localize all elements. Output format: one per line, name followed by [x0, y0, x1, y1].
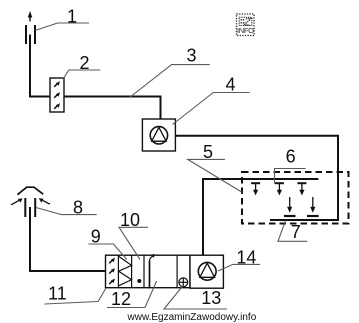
- svg-text:13: 13: [201, 288, 221, 308]
- label 12 leader: [107, 281, 157, 308]
- supply diffusers 6: [251, 183, 306, 195]
- label 11 leader: [45, 288, 107, 304]
- svg-text:1: 1: [67, 6, 77, 26]
- label 2 leader: [64, 70, 101, 79]
- supply duct wire to room and down to AHU fan: [203, 179, 318, 255]
- AHU heater zigzag 9: [119, 256, 132, 286]
- air intake symbol 8: [11, 187, 50, 217]
- label 7 leader: [278, 221, 307, 242]
- label 13 leader: [164, 285, 227, 309]
- AHU damper 12: [150, 254, 155, 289]
- svg-text:8: 8: [73, 197, 83, 217]
- wire from fan 4 right, down, extract duct left: [176, 136, 339, 220]
- label 5 leader: [188, 159, 243, 192]
- wire from exhaust outlet 1 down and right to fan 4: [30, 35, 161, 120]
- EZ INFO watermark stamp: [237, 14, 255, 36]
- svg-text:6: 6: [286, 146, 296, 166]
- svg-text:4: 4: [225, 75, 235, 95]
- AHU filter marks 11: [109, 258, 115, 284]
- label 9 leader: [88, 244, 126, 260]
- svg-text:5: 5: [203, 142, 213, 162]
- svg-text:INFO: INFO: [237, 26, 254, 35]
- leader lines and underlines: [35, 23, 307, 309]
- svg-text:14: 14: [236, 248, 256, 268]
- exhaust outlet symbol 1: [26, 11, 35, 44]
- label 6 leader: [275, 169, 306, 184]
- air handling unit casing: [106, 255, 191, 288]
- fan U4: [142, 119, 175, 151]
- dashed room boundary: [242, 172, 349, 224]
- svg-text:www.EgzaminZawodowy.info: www.EgzaminZawodowy.info: [127, 312, 257, 323]
- svg-text:11: 11: [48, 284, 67, 304]
- wire from intake 8 down and right to AHU: [30, 207, 106, 271]
- label 3 leader: [130, 65, 210, 98]
- svg-text:9: 9: [91, 227, 101, 247]
- label 8 leader: [36, 208, 97, 215]
- svg-text:3: 3: [186, 46, 196, 66]
- label digits: [48, 6, 301, 309]
- svg-text:7: 7: [291, 222, 301, 242]
- AHU fan section box 14: [190, 255, 223, 288]
- label 4 leader: [173, 93, 250, 125]
- svg-text:10: 10: [120, 210, 140, 230]
- label 1 leader: [35, 23, 89, 31]
- AHU fan 14: [198, 262, 216, 280]
- AHU section dividers: [118, 255, 177, 288]
- label 10 leader: [119, 227, 148, 259]
- extract grilles 7: [284, 197, 319, 216]
- filter 2: [50, 78, 64, 112]
- label 14 leader: [218, 264, 260, 271]
- svg-text:12: 12: [111, 289, 131, 309]
- svg-text:2: 2: [79, 53, 89, 73]
- AHU sensor 13: [179, 278, 188, 287]
- AHU section dot 10: [137, 279, 141, 283]
